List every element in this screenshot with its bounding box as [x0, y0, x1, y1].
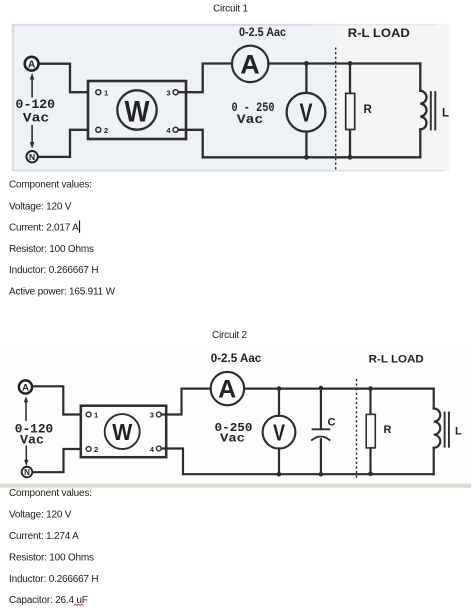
top rail wire	[268, 62, 420, 64]
terminal 2	[96, 127, 101, 132]
dashed separator line	[335, 48, 337, 171]
source arrow up	[25, 399, 27, 421]
svg-text:Vac: Vac	[23, 111, 50, 126]
wattmeter U1 box	[88, 81, 186, 139]
node bottom V	[304, 155, 309, 160]
node bottom R	[368, 472, 373, 477]
resistor R body	[346, 93, 355, 129]
svg-text:W: W	[112, 419, 132, 445]
resistor R branch wires	[369, 389, 371, 415]
resistor R body	[366, 414, 375, 448]
inductor core bar 1	[430, 92, 432, 130]
svg-text:C: C	[328, 417, 336, 429]
inductor lower wire	[419, 129, 421, 157]
svg-text:L: L	[442, 108, 449, 120]
inductor core bar 2	[434, 92, 436, 130]
inductor L coil	[420, 91, 426, 130]
svg-text:A: A	[22, 383, 29, 394]
inductor lower wire	[433, 448, 435, 474]
svg-text:Component values:: Component values:	[9, 179, 92, 190]
wire source-A to wattmeter terminal 1	[39, 64, 95, 92]
wire terminal 4 to bottom rail	[179, 130, 203, 158]
source terminal A	[25, 57, 39, 71]
wattmeter U2 box	[81, 406, 166, 458]
svg-text:N: N	[29, 152, 35, 162]
svg-text:R: R	[364, 104, 373, 116]
node top V	[277, 386, 282, 391]
text cursor	[79, 220, 80, 232]
terminal 1	[96, 90, 101, 95]
resistor R branch wires	[349, 64, 351, 94]
inductor L coil	[434, 409, 441, 448]
svg-text:Vac: Vac	[20, 433, 44, 447]
source terminal A	[19, 380, 32, 393]
scan bottom edge	[12, 170, 444, 172]
svg-text:Inductor: 0.266667 H: Inductor: 0.266667 H	[9, 574, 98, 585]
bottom rail wire	[203, 156, 421, 158]
svg-text:3: 3	[166, 89, 170, 98]
ammeter A1 circle	[232, 46, 268, 82]
svg-text:W: W	[125, 95, 151, 128]
capacitor C branch wires	[320, 389, 322, 429]
source arrow down	[31, 125, 33, 144]
svg-text:A: A	[28, 59, 35, 70]
svg-text:A: A	[240, 50, 260, 80]
node top C	[319, 386, 324, 391]
scan bottom band	[0, 484, 471, 488]
terminal 2	[86, 447, 91, 452]
svg-text:Active power: 165.911 W: Active power: 165.911 W	[9, 286, 116, 297]
dashed separator line	[356, 379, 358, 478]
inductor core bar 1	[444, 413, 446, 447]
svg-text:Component values:: Component values:	[9, 488, 92, 499]
svg-text:2: 2	[94, 445, 98, 454]
svg-text:N: N	[24, 468, 30, 477]
scan top border	[13, 24, 313, 26]
scan background circuit 1	[12, 24, 450, 172]
svg-text:Circuit 2: Circuit 2	[212, 330, 248, 341]
node top R	[348, 61, 353, 66]
capacitor top plate	[313, 428, 330, 430]
inductor L branch wire down	[419, 64, 421, 91]
terminal 3	[173, 90, 178, 95]
svg-text:R-L LOAD: R-L LOAD	[348, 28, 410, 40]
svg-text:Voltage: 120 V: Voltage: 120 V	[9, 510, 72, 521]
source arrow up	[31, 77, 33, 98]
inductor core bar 2	[448, 413, 450, 447]
node top R	[368, 386, 373, 391]
wire source-A to wattmeter terminal 1	[33, 386, 86, 414]
scan background circuit 2	[0, 344, 471, 488]
wire source-N to wattmeter terminal 2	[38, 130, 95, 157]
inductor L branch wire down	[433, 389, 435, 409]
svg-text:1: 1	[104, 89, 108, 98]
terminal 1	[86, 412, 91, 417]
junction dots circuit 2	[277, 386, 373, 477]
svg-text:V: V	[273, 419, 286, 445]
junction dots circuit 1	[304, 61, 352, 160]
source arrow down	[25, 446, 27, 463]
terminal 4	[173, 127, 178, 132]
svg-text:Vac: Vac	[220, 432, 245, 446]
svg-text:L: L	[455, 426, 462, 438]
svg-text:Current: 1.274 A: Current: 1.274 A	[9, 531, 79, 542]
bottom rail wire	[183, 473, 434, 475]
wattmeter W circle	[105, 414, 140, 449]
top rail wire	[244, 388, 434, 390]
svg-text:A: A	[218, 375, 236, 403]
svg-text:V: V	[300, 98, 313, 128]
node bottom V	[277, 472, 282, 477]
svg-text:Voltage: 120 V: Voltage: 120 V	[9, 201, 72, 212]
wire terminal 3 to ammeter	[162, 389, 211, 415]
svg-text:Inductor: 0.266667 H: Inductor: 0.266667 H	[9, 265, 98, 276]
voltmeter V2 branch wires	[278, 389, 280, 416]
svg-text:R-L LOAD: R-L LOAD	[369, 354, 424, 366]
node top V	[304, 61, 309, 66]
scan left border	[12, 24, 15, 171]
ammeter A2 circle	[211, 372, 244, 405]
svg-text:Circuit 1: Circuit 1	[213, 4, 249, 15]
svg-text:0-2.5 Aac: 0-2.5 Aac	[239, 25, 286, 39]
wire terminal 3 to ammeter	[179, 64, 232, 93]
svg-text:3: 3	[150, 411, 154, 420]
spellcheck squiggle under uF	[74, 604, 84, 606]
node bottom R	[348, 155, 353, 160]
node bottom C	[319, 472, 324, 477]
wattmeter W circle	[117, 90, 156, 129]
voltmeter V1 circle	[287, 93, 326, 132]
voltmeter V1 branch wires	[305, 64, 307, 93]
svg-text:2: 2	[104, 126, 108, 135]
svg-text:Vac: Vac	[237, 112, 264, 127]
voltmeter V2 circle	[263, 416, 296, 449]
svg-text:R: R	[384, 424, 392, 436]
svg-text:Resistor: 100 Ohms: Resistor: 100 Ohms	[9, 553, 94, 564]
wire terminal 4 to bottom rail	[162, 449, 184, 475]
terminal 3	[156, 412, 161, 417]
capacitor bottom plate	[312, 437, 330, 441]
terminal 4	[156, 446, 161, 451]
svg-text:Current: 2.017 A: Current: 2.017 A	[9, 222, 79, 233]
svg-text:0-2.5 Aac: 0-2.5 Aac	[211, 351, 262, 365]
svg-text:Resistor: 100 Ohms: Resistor: 100 Ohms	[9, 244, 94, 255]
wire source-N to wattmeter terminal 2	[32, 449, 85, 472]
source terminal N	[26, 151, 37, 162]
source terminal N	[22, 467, 33, 478]
